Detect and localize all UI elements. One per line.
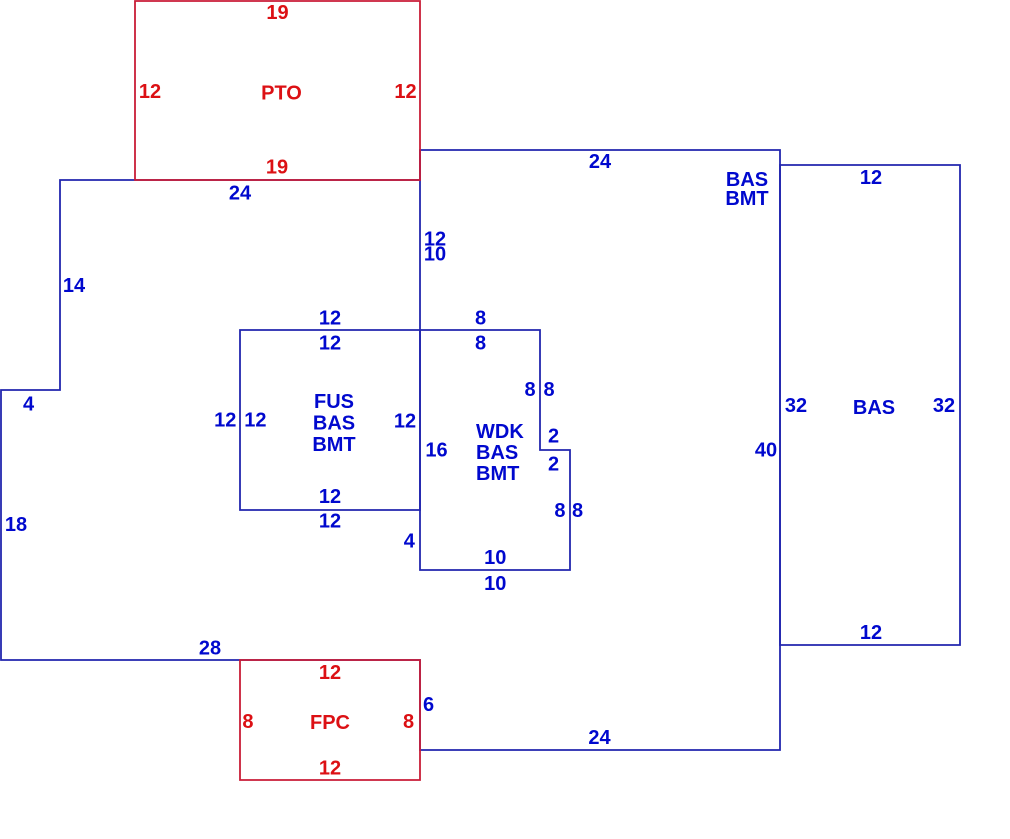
- svg-text:2: 2: [548, 454, 559, 476]
- svg-text:18: 18: [5, 514, 27, 536]
- svg-text:8: 8: [572, 500, 583, 522]
- area BAS right rectangle: [780, 165, 960, 645]
- area WDK/BAS/BMT outline: [420, 330, 570, 570]
- svg-text:4: 4: [23, 394, 35, 416]
- svg-text:12: 12: [244, 410, 266, 432]
- svg-text:19: 19: [266, 157, 288, 179]
- svg-text:32: 32: [785, 395, 807, 417]
- svg-text:10: 10: [484, 573, 506, 595]
- svg-text:19: 19: [266, 2, 288, 24]
- svg-text:BMT: BMT: [725, 188, 768, 210]
- svg-text:2: 2: [548, 426, 559, 448]
- svg-text:32: 32: [933, 395, 955, 417]
- svg-text:24: 24: [229, 183, 252, 205]
- svg-text:12: 12: [319, 333, 341, 355]
- svg-text:12: 12: [860, 622, 882, 644]
- svg-text:24: 24: [589, 151, 612, 173]
- svg-text:8: 8: [554, 500, 565, 522]
- svg-text:BMT: BMT: [312, 434, 355, 456]
- svg-text:BAS: BAS: [853, 397, 895, 419]
- svg-text:8: 8: [475, 308, 486, 330]
- svg-text:12: 12: [319, 308, 341, 330]
- svg-text:BAS: BAS: [476, 442, 518, 464]
- svg-text:24: 24: [588, 727, 611, 749]
- area FPC rectangle: [240, 660, 420, 780]
- svg-text:PTO: PTO: [261, 83, 302, 105]
- svg-text:12: 12: [319, 662, 341, 684]
- svg-text:8: 8: [543, 379, 554, 401]
- svg-text:12: 12: [139, 81, 161, 103]
- svg-text:12: 12: [319, 758, 341, 780]
- svg-text:12: 12: [394, 411, 416, 433]
- svg-text:12: 12: [214, 410, 236, 432]
- svg-text:8: 8: [524, 379, 535, 401]
- svg-text:8: 8: [475, 333, 486, 355]
- area FUS/BAS/BMT rectangle: [240, 330, 420, 510]
- svg-text:FPC: FPC: [310, 712, 350, 734]
- svg-text:BAS: BAS: [313, 413, 355, 435]
- wire shared edge x=420 from y=150 to y=330: [419, 150, 421, 330]
- svg-text:WDK: WDK: [476, 421, 524, 443]
- area BAS/BMT main outline: [1, 150, 780, 750]
- svg-text:4: 4: [404, 530, 416, 552]
- svg-text:12: 12: [319, 486, 341, 508]
- svg-text:6: 6: [423, 694, 434, 716]
- svg-text:BMT: BMT: [476, 463, 519, 485]
- svg-text:12: 12: [394, 81, 416, 103]
- svg-text:12: 12: [319, 511, 341, 533]
- svg-text:8: 8: [403, 711, 414, 733]
- svg-text:10: 10: [424, 244, 446, 266]
- svg-text:40: 40: [755, 440, 777, 462]
- svg-text:10: 10: [484, 547, 506, 569]
- svg-text:12: 12: [860, 167, 882, 189]
- svg-text:14: 14: [63, 275, 86, 297]
- svg-text:28: 28: [199, 638, 221, 660]
- svg-text:FUS: FUS: [314, 391, 354, 413]
- area PTO rectangle: [135, 1, 420, 180]
- svg-text:16: 16: [425, 440, 447, 462]
- svg-text:8: 8: [242, 711, 253, 733]
